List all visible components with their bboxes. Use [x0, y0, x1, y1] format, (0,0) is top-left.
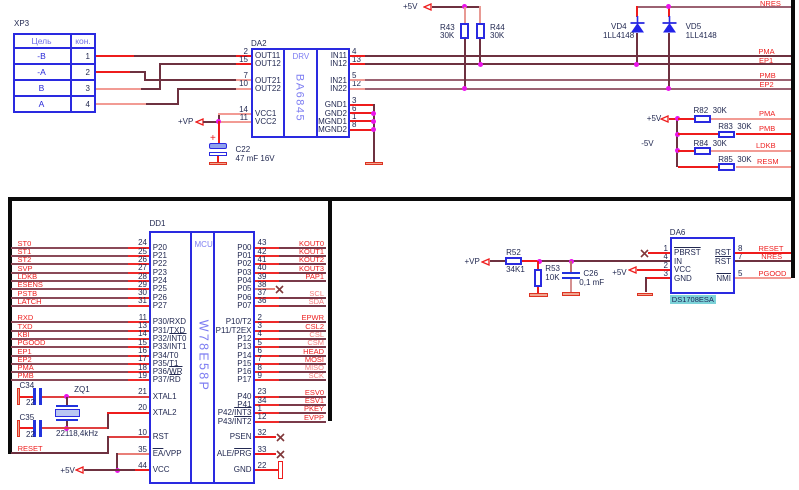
wire +5V vertical R82-R85 [676, 118, 678, 168]
net label RESM right [757, 158, 779, 166]
wire DD1 pin 38 no-connect [255, 288, 275, 290]
wire net MISO from DD1 pin 8 [255, 371, 279, 373]
IC DA2 box [251, 48, 350, 139]
wire net EP2 from IN22 [350, 88, 365, 90]
wire DD1 pin 33 ALE/PRG no-connect [255, 453, 276, 455]
junction EA VCC [115, 468, 120, 473]
wire net KBI to DD1 pin 14 [11, 338, 128, 340]
DA6 right pin names [696, 249, 731, 257]
wire XP3 pin1 to DA2 OUT11 [96, 55, 134, 57]
wire net SCK from DD1 pin 9 [255, 379, 279, 381]
junction VD4 EP1 [634, 62, 639, 67]
wire net CSL2 from DD1 pin 3 [255, 330, 279, 332]
wire net EP1 from IN12 [350, 63, 365, 65]
wire net ST2 to DD1 pin 26 [11, 263, 128, 265]
junction R82 [675, 116, 680, 121]
DA6 left pin names [674, 249, 701, 257]
wire net PSTB to DD1 pin 30 [11, 297, 128, 299]
wire net RXD to DD1 pin 11 [11, 321, 128, 323]
net label PMB right [759, 125, 775, 133]
DD1 pin 35 name [127, 446, 147, 454]
DA2 right pin names [312, 52, 347, 60]
wire net PMA to DD1 pin 18 [11, 371, 128, 373]
wire net ESV0 from DD1 pin 23 [255, 396, 279, 398]
wire XP3 pin4 to DA2 OUT22 [96, 103, 146, 105]
connector XP3 label [14, 20, 29, 28]
wire +5V to DA6 VCC [637, 269, 670, 271]
wire net EVPP from DD1 pin 12 [255, 421, 279, 423]
DA6 left pin numbers [648, 245, 668, 253]
crystal ZQ1 [74, 386, 90, 394]
wire net PMB to DD1 pin 19 [11, 379, 128, 381]
power +5V DA6 [612, 269, 626, 277]
resistor R85 [678, 166, 718, 168]
wire NRES [636, 6, 793, 8]
wire +VP down to C22 [218, 121, 220, 144]
wire DD1 pin 22 GND [255, 469, 279, 471]
junction ZQ1 bottom [64, 426, 69, 431]
power +5V right block [647, 115, 661, 123]
label DS1708ESA highlighted [670, 295, 716, 305]
DA2 left pin numbers [228, 48, 248, 56]
wire DA6 pin1 no-connect [648, 252, 670, 254]
IC DD1 MCU text [195, 241, 213, 249]
DA6 right pin numbers [738, 245, 742, 253]
junction VD5 EP2 [666, 86, 671, 91]
wire net PGOOD to DD1 pin 15 [11, 346, 128, 348]
DD1 pin 20 name [127, 404, 147, 412]
power +5V DD1 [60, 467, 74, 475]
DD1 pin 44 name [127, 462, 147, 470]
wire net ST0 to DD1 pin 24 [11, 247, 128, 249]
wire XP3 pin2 to DA2 OUT21 [96, 71, 130, 73]
junction R43 top [462, 4, 467, 9]
wire net ST1 to DD1 pin 25 [11, 255, 128, 257]
wire net EP1 to DD1 pin 16 [11, 355, 128, 357]
ground C22 [209, 162, 226, 165]
wire DA6 GND to ground [645, 277, 670, 279]
wire DA6 RST to RESET [735, 252, 790, 254]
junction R83 [675, 132, 680, 137]
wire XP3 pin3 to DA2 OUT12 [96, 88, 141, 90]
wire +5V to R43 R44 [432, 6, 480, 8]
wire net EPWR from DD1 pin 2 [255, 321, 279, 323]
sheet divider right vertical [791, 0, 795, 278]
ground DA6 [637, 293, 653, 297]
wire R52 to DA6 IN [522, 260, 539, 262]
junction R44 EP1 [478, 62, 483, 67]
wire net LATCH to DD1 pin 31 [11, 305, 128, 307]
sheet divider horizontal [8, 197, 793, 202]
wire DA6 /NMI to PGOOD [735, 277, 790, 279]
IC DD1 box [149, 231, 255, 484]
wire C35 to XTAL2 [42, 427, 108, 429]
XP3 row -B [13, 52, 70, 61]
junction +VP node [216, 119, 221, 124]
resistor R82 [678, 118, 694, 120]
wire DD1 pin 32 PSEN no-connect [255, 436, 276, 438]
resistor R52 [505, 257, 522, 265]
junction ZQ1 top [64, 394, 69, 399]
net label NRES [760, 0, 781, 8]
wire net SDA from DD1 pin 36 [255, 305, 279, 307]
power +5V top [403, 3, 417, 11]
ground R53 [529, 293, 548, 297]
power +VP symbol [178, 118, 193, 126]
capacitor C35 [20, 414, 35, 422]
DD1 pin 10 name [127, 429, 147, 437]
power -5V text [641, 140, 653, 148]
ground C26 [562, 292, 580, 296]
wire net MOSI from DD1 pin 7 [255, 363, 279, 365]
IC DD1 label [150, 220, 166, 228]
IC DA2 label [251, 40, 267, 48]
resistor R84 [678, 150, 694, 152]
junction GND2 [371, 111, 376, 116]
sheet divider left vertical [8, 197, 12, 455]
net label PMA right [759, 110, 775, 118]
wire net PAP1 from DD1 pin 39 [255, 280, 279, 282]
diode VD5 [668, 6, 670, 17]
IC DA6 label [670, 229, 686, 237]
diode VD4 [636, 6, 638, 17]
DD1 pin 21 name [127, 388, 147, 396]
wire +5V to VCC [84, 469, 136, 471]
ground C34 [20, 396, 33, 398]
capacitor C34 [20, 382, 35, 390]
ground DD1 pin 22 [278, 461, 283, 479]
ground C35 [20, 427, 33, 429]
sheet divider middle vertical [328, 197, 332, 421]
wire net ESV1 from DD1 pin 34 [255, 404, 279, 406]
net label EP1 [759, 57, 773, 65]
junction MGND2 [371, 127, 376, 132]
IC DA2 BA6845 rotated [294, 74, 305, 122]
wire net TXD to DD1 pin 13 [11, 330, 128, 332]
label C22 value [236, 146, 251, 154]
resistor R83 [678, 133, 718, 135]
resistor R43 [464, 7, 466, 24]
wire net PMA from IN11 [350, 55, 365, 57]
net label RESET [18, 445, 43, 453]
net label LDKB right [756, 142, 776, 150]
wire net KOUT3 from DD1 pin 40 [255, 272, 279, 274]
wire RST to RESET [107, 436, 149, 438]
wire +VP to R52 [490, 260, 505, 262]
wire net KOUT2 from DD1 pin 41 [255, 263, 279, 265]
ground DA2 [365, 162, 383, 165]
wire DA6 /RST to NRES [735, 260, 790, 262]
XP3 header text [13, 37, 70, 46]
wire net ESENS to DD1 pin 29 [11, 288, 128, 290]
wire net PMB from IN21 [350, 79, 365, 81]
wire EA/VPP to +5V [116, 453, 148, 455]
connector XP3 table [13, 33, 96, 113]
wire net CSM from DD1 pin 5 [255, 346, 279, 348]
wire net CSL from DD1 pin 4 [255, 338, 279, 340]
XP3 row B [13, 84, 70, 93]
junction MGND1 [371, 119, 376, 124]
IC DA2 DRV text [293, 53, 310, 61]
net label EP2 [760, 81, 774, 89]
DA2 left pin names [255, 52, 280, 60]
capacitor C22 [209, 143, 226, 149]
capacitor C26 [570, 261, 572, 272]
wire C34 to XTAL1 [42, 396, 149, 398]
IC DA6 box [670, 237, 735, 295]
wire net SVP to DD1 pin 27 [11, 272, 128, 274]
XP3 row A [13, 100, 70, 109]
resistor R53 [537, 261, 539, 270]
net label PMA [758, 48, 774, 56]
junction C26 node [569, 259, 574, 264]
wire net EP2 to DD1 pin 17 [11, 363, 128, 365]
junction R84 [675, 148, 680, 153]
net label PMB [760, 72, 776, 80]
wire net HEAD from DD1 pin 6 [255, 355, 279, 357]
wire +VP to DA2 VCC [203, 121, 219, 123]
wire net LDKB to DD1 pin 28 [11, 280, 128, 282]
wire net PKEY from DD1 pin 1 [255, 412, 279, 414]
resistor R44 [479, 6, 481, 24]
wire net KOUT0 from DD1 pin 43 [255, 247, 279, 249]
wire net SCL from DD1 pin 37 [255, 297, 279, 299]
DA2 right pin numbers [352, 48, 356, 56]
wire net KOUT1 from DD1 pin 42 [255, 255, 279, 257]
XP3 row -A [13, 68, 70, 77]
power +VP DA6 [465, 258, 480, 266]
capacitor C22 polarity + [210, 134, 216, 144]
junction VD5 NRES [666, 4, 671, 9]
junction R53 node [537, 259, 542, 264]
wire DA2 GND collector [350, 104, 374, 106]
IC DD1 W78E58P rotated [196, 320, 209, 392]
junction R43 EP2 [462, 86, 467, 91]
